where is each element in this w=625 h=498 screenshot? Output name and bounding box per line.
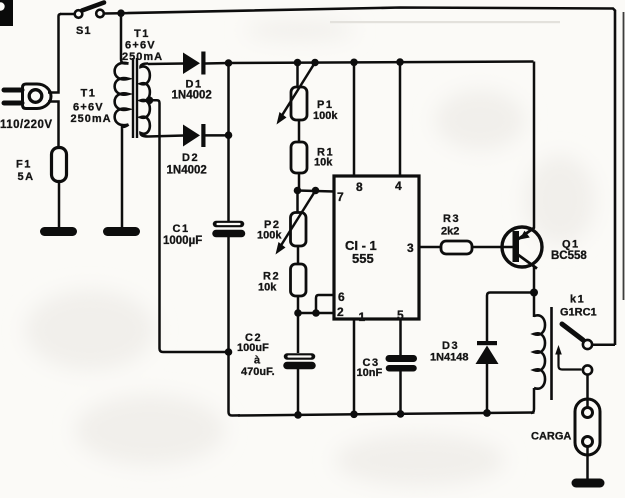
- svg-text:5A: 5A: [18, 171, 35, 183]
- wire pin 3 to R3: [419, 246, 441, 249]
- svg-text:D3: D3: [442, 340, 459, 352]
- svg-text:1: 1: [359, 310, 366, 324]
- Q1 emitter arrowhead: [520, 231, 530, 240]
- wire common contact to right vertical: [592, 344, 615, 347]
- svg-text:à: à: [254, 355, 261, 367]
- node rail P1 wiper: [311, 59, 319, 67]
- load outlet top hole: [583, 408, 593, 418]
- relay K1 coil: [534, 315, 545, 388]
- IC CI-1 555 body: [334, 176, 419, 319]
- wire junction row to pin 7: [298, 191, 335, 192]
- node R2/C2: [294, 309, 302, 317]
- P1 wiper arrowhead: [277, 112, 287, 125]
- wire T1 primary top lead: [121, 13, 129, 63]
- transistor Q1 circle: [502, 227, 542, 267]
- diode D3: [476, 341, 499, 364]
- node R1/P2: [294, 187, 302, 195]
- wire NO contact to load: [586, 375, 589, 409]
- wire P1 to R1: [298, 120, 301, 142]
- svg-text:T1: T1: [81, 88, 97, 100]
- wire collector to D3: [487, 293, 534, 342]
- node T1 primary top junction: [117, 9, 125, 17]
- svg-text:100uF: 100uF: [237, 342, 269, 354]
- svg-text:2: 2: [337, 305, 344, 319]
- svg-text:10k: 10k: [258, 282, 277, 294]
- svg-text:6: 6: [338, 290, 345, 304]
- wire plug to switch (upper stub): [48, 14, 61, 93]
- wire center tap return: [150, 100, 230, 352]
- faint print bleed streak: [330, 21, 560, 23]
- Q1 emitter diagonal: [517, 228, 535, 241]
- wire junction row 2 to pin 2: [298, 312, 334, 315]
- wire pin 6 elbow: [316, 295, 334, 313]
- resistor R3: [441, 241, 472, 254]
- page corner marker: [0, 0, 13, 26]
- svg-text:Q1: Q1: [562, 239, 580, 251]
- node rail pin4: [396, 58, 404, 66]
- ground (mains return, under T1): [108, 227, 136, 236]
- wire D1 cathode to V+ node: [205, 62, 229, 65]
- relay K1 actuation arrow (elbow from NO contact): [559, 351, 582, 370]
- wire secondary bottom to D2: [148, 136, 184, 137]
- wire C3 to ground rail: [399, 368, 402, 414]
- svg-text:10nF: 10nF: [357, 367, 383, 379]
- node D2 junction: [225, 131, 233, 139]
- svg-text:D2: D2: [182, 152, 199, 164]
- svg-text:R3: R3: [443, 213, 460, 225]
- wire coil to ground rail: [531, 388, 534, 413]
- wire switch lead left: [60, 13, 75, 16]
- transformer T1 secondary winding: [141, 64, 150, 137]
- svg-text:1N4002: 1N4002: [172, 90, 212, 102]
- node collector junction: [530, 289, 538, 297]
- svg-text:CARGA: CARGA: [531, 431, 571, 443]
- wire plug to fuse (lower stub): [48, 102, 59, 148]
- svg-text:4: 4: [395, 179, 402, 193]
- wire switch to T1 top node: [104, 12, 122, 15]
- svg-text:10k: 10k: [314, 157, 333, 169]
- wire tap node to ground rail: [229, 352, 241, 416]
- svg-text:1000µF: 1000µF: [163, 235, 202, 247]
- potentiometer P2 body: [291, 213, 307, 247]
- P2 wiper diagonal: [280, 191, 316, 248]
- mains plug prong bottom: [4, 101, 22, 106]
- relay K1 common contact: [583, 340, 592, 349]
- wire pin 8 to rail: [353, 62, 356, 176]
- svg-text:1N4002: 1N4002: [167, 165, 207, 177]
- load outlet CARGA outline: [575, 399, 600, 455]
- wire R3 to Q1 base: [472, 246, 513, 249]
- node pin6/pin2: [312, 309, 320, 317]
- P2 wiper arrowhead: [276, 242, 286, 255]
- relay K1 NO contact: [583, 365, 592, 374]
- switch S1 contact circle right: [96, 10, 104, 18]
- svg-text:F1: F1: [16, 159, 32, 171]
- resistor R2: [291, 264, 307, 296]
- svg-text:G1RC1: G1RC1: [560, 307, 597, 319]
- svg-text:250mA: 250mA: [71, 113, 112, 125]
- wire C2 to ground rail: [297, 366, 300, 415]
- wire top mains line to right edge: [121, 8, 615, 346]
- potentiometer P1 body: [291, 87, 307, 120]
- diode D1: [183, 52, 206, 75]
- load outlet bottom hole: [583, 437, 593, 447]
- fuse F1: [52, 148, 67, 182]
- node rail pin8: [350, 59, 358, 67]
- svg-text:3: 3: [407, 241, 414, 255]
- node rail P1 top: [294, 59, 302, 67]
- svg-text:250mA: 250mA: [122, 51, 163, 63]
- P1 wiper diagonal: [281, 63, 315, 118]
- resistor R1: [291, 142, 307, 173]
- capacitor C3: [389, 359, 414, 369]
- node D3/rail: [483, 409, 491, 417]
- wire P2 to R2: [297, 246, 300, 264]
- wire P1 top lead: [296, 63, 299, 87]
- wire fuse to ground: [58, 181, 61, 228]
- wire junction to C2: [297, 313, 300, 353]
- wire V+ rail: [229, 62, 534, 64]
- svg-text:2k2: 2k2: [441, 226, 459, 238]
- wire C1 to tap node: [227, 237, 230, 352]
- capacitor C2: [287, 357, 312, 366]
- svg-text:6+6V: 6+6V: [73, 102, 104, 114]
- svg-text:100k: 100k: [313, 110, 338, 122]
- wire D3 to ground rail: [486, 364, 489, 413]
- wire pin 5 to C3: [399, 319, 402, 355]
- svg-text:BC558: BC558: [551, 250, 587, 262]
- switch S1 contact circle left: [75, 10, 83, 18]
- wire T1 primary bottom lead: [122, 125, 129, 229]
- wire R1 to junction row: [298, 173, 301, 191]
- node rail C3: [397, 410, 405, 418]
- svg-text:S1: S1: [76, 25, 91, 37]
- svg-text:8: 8: [356, 180, 363, 194]
- node rail C2: [294, 411, 302, 419]
- wire pin 1 to ground rail: [353, 319, 356, 414]
- relay K1 separator bar: [550, 307, 553, 400]
- svg-text:555: 555: [352, 251, 374, 266]
- svg-text:C1: C1: [173, 223, 190, 235]
- svg-text:100k: 100k: [257, 230, 282, 242]
- ground (mains return, left): [45, 227, 73, 236]
- mains plug body: [23, 84, 51, 109]
- svg-text:6+6V: 6+6V: [125, 40, 156, 52]
- wire Q1 collector down: [533, 266, 536, 293]
- switch S1 lever: [82, 3, 104, 11]
- wire ground rail: [238, 413, 535, 416]
- mains plug prong top: [4, 88, 22, 93]
- Q1 base bar: [513, 231, 520, 262]
- wire R2 to junction row 2: [297, 296, 300, 313]
- wire D2 cathode to C1 line: [205, 134, 230, 137]
- svg-text:T1: T1: [134, 28, 150, 40]
- wire P2 top lead: [296, 191, 299, 213]
- svg-text:110/220V: 110/220V: [0, 119, 53, 131]
- faint page edge line: [623, 12, 625, 300]
- diode D2: [183, 124, 206, 147]
- transformer T1 core: [132, 58, 134, 138]
- svg-text:k1: k1: [570, 294, 585, 306]
- mains plug face circle: [29, 90, 42, 103]
- Q1 collector diagonal: [517, 254, 537, 269]
- node D1/C1 junction: [225, 59, 233, 67]
- svg-text:470uF.: 470uF.: [241, 366, 275, 378]
- wire Q1 emitter to V+ rail: [533, 62, 536, 229]
- wire pin 4 to rail: [399, 62, 402, 176]
- ground (load): [576, 479, 600, 488]
- wire D junction to C1: [227, 63, 230, 221]
- svg-text:7: 7: [337, 190, 344, 204]
- node rail pin1: [350, 411, 358, 419]
- transformer T1 primary winding: [115, 63, 129, 125]
- node T1 center tap: [146, 97, 154, 105]
- node C1/tap junction: [225, 348, 233, 356]
- wire secondary top to D1: [148, 62, 184, 65]
- node P2 wiper/pin7: [312, 187, 320, 195]
- capacitor C1: [216, 224, 242, 234]
- wire outlet to ground: [586, 447, 589, 480]
- wire collector junction to relay coil: [533, 293, 536, 318]
- svg-text:1N4148: 1N4148: [430, 352, 469, 364]
- relay K1 armature lever: [562, 324, 583, 340]
